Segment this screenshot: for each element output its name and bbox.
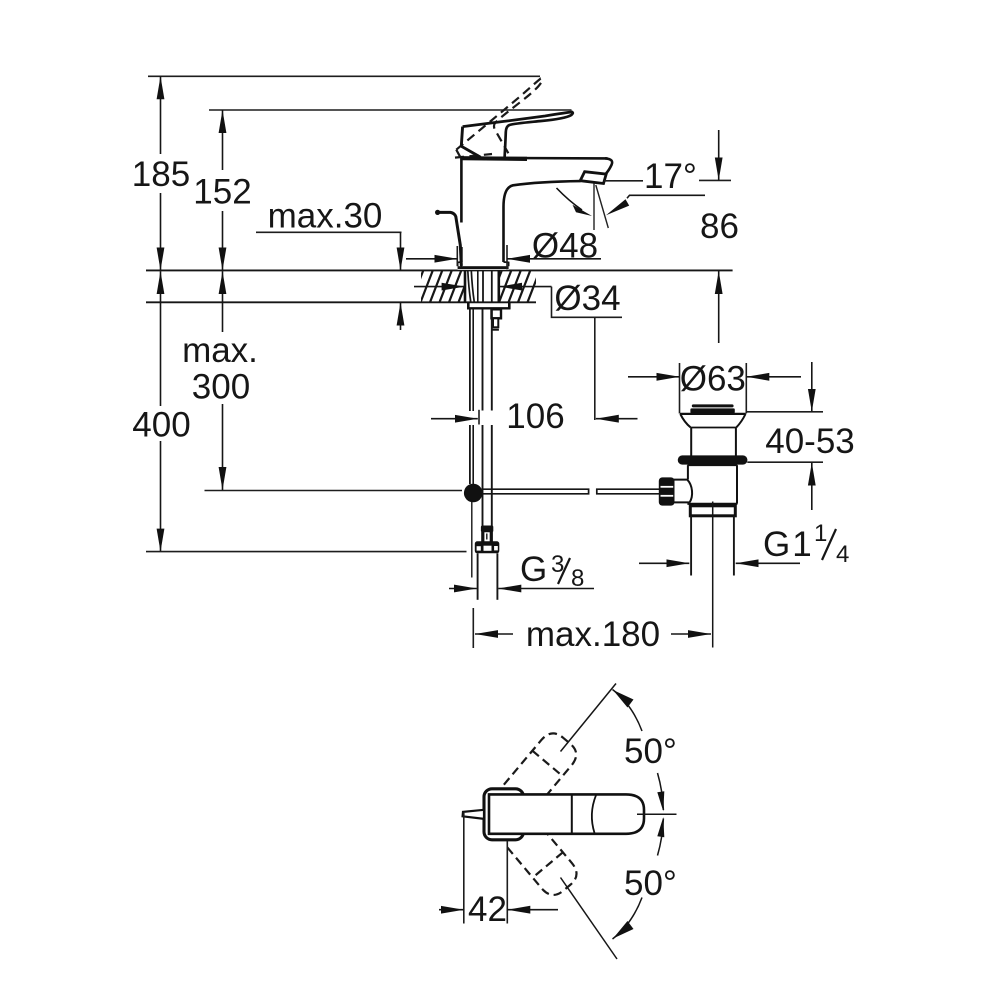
thin rod line below ball joint: [471, 502, 473, 578]
svg-text:152: 152: [193, 173, 251, 212]
dimension 400 vertical line with arrows: [160, 271, 162, 406]
svg-text:Ø34: Ø34: [554, 279, 620, 318]
aerator tip: [580, 172, 606, 184]
svg-text:17°: 17°: [644, 157, 697, 196]
dimension 185 vertical line with arrows: [160, 76, 162, 154]
spout underside curve: [504, 181, 581, 262]
plan view: lever tip divider curve: [592, 795, 596, 833]
svg-text:185: 185: [132, 155, 190, 194]
dimension G 1 1/4 arrows: [639, 562, 689, 564]
curved pop-up rod tube in shank: [468, 270, 471, 302]
ball-rod socket on drain body: [674, 480, 693, 503]
plan view: pop-up rod tip wedge: [463, 810, 484, 819]
svg-text:G1: G1: [763, 525, 814, 564]
rod coupler clamp upper block: [481, 526, 493, 533]
threaded ring G 1 1/4: [690, 506, 735, 516]
supply lines in shank: [477, 270, 479, 302]
extension line washer bottom (40-53 lower): [747, 461, 823, 463]
dimension 40-53 arrows: [811, 362, 813, 412]
reference line top of lever swing (185 level): [148, 75, 540, 77]
leader with arrow pointing to slanted stream line: [627, 195, 705, 198]
drain neck sides: [690, 428, 692, 456]
dimension Ø63 arrows: [628, 376, 680, 378]
lower angle arc: [613, 898, 643, 940]
svg-text:86: 86: [700, 207, 739, 246]
drain flange flare sides: [680, 414, 745, 427]
drain centerline: [712, 502, 714, 648]
dimension 106 extension line: [478, 410, 480, 425]
drain flare bottom line: [690, 427, 736, 429]
upper arc arrowheads: [613, 690, 634, 708]
threaded shank walls in deck hole: [464, 270, 467, 302]
ball joint of pop-up lever: [464, 484, 483, 503]
dimension G 3/8 arrows: [449, 588, 477, 590]
horizontal pop-up lever rod (right piece): [597, 489, 660, 494]
knurled adjuster knob: [659, 477, 675, 505]
pop-up rod tube below 106 line: [469, 425, 471, 484]
svg-text:1: 1: [814, 520, 827, 547]
svg-text:G: G: [520, 550, 547, 589]
cartridge steps below nut: [492, 309, 502, 318]
dimension Ø34 arrows: [414, 286, 465, 288]
deck / countertop top line: [146, 269, 733, 271]
dashed handle in raised position (rotated): [447, 78, 566, 176]
faucet body outline: [461, 158, 607, 223]
svg-text:max.180: max.180: [526, 615, 660, 654]
extension line washer top (40-53 upper): [747, 411, 824, 413]
svg-text:300: 300: [192, 368, 250, 407]
dimension 86 vertical line with arrows: [718, 130, 720, 180]
curved rotation arrow toward vertical line: [557, 188, 583, 210]
dimension Ø48 arrows: [406, 258, 457, 260]
dimension 106 arrows: [431, 418, 478, 420]
plan view: lever body: [489, 794, 644, 833]
svg-text:8: 8: [571, 565, 584, 592]
upper angle arc: [613, 690, 643, 732]
deck hatching left block: [411, 270, 471, 302]
handle rear block outline: [461, 127, 480, 158]
svg-text:106: 106: [506, 397, 564, 436]
reference line bottom of 400: [146, 551, 467, 553]
plan view: lower 50-degree radius line: [561, 878, 618, 960]
leader corner for Ø34 label: [552, 287, 623, 318]
plan view: dashed lever rotated up 50 degrees: [504, 728, 582, 810]
svg-text:50°: 50°: [624, 732, 677, 771]
plan view: handle rear block: [484, 789, 524, 840]
drain body bottom line: [687, 503, 737, 505]
dimension max.180 extension line (left): [472, 608, 474, 648]
dimension max.30 arrows (deck thickness): [400, 232, 402, 270]
faucet body silhouette (white fill): [458, 158, 613, 270]
base flange: [458, 266, 509, 269]
vertical water reference line below aerator: [593, 184, 595, 231]
plan view: upper 50-degree radius line: [561, 684, 617, 752]
svg-text:Ø63: Ø63: [680, 360, 746, 399]
dimension max.300 vertical line with arrows: [222, 271, 224, 332]
pop-up rod knob on faucet left: [438, 212, 462, 265]
drain Ø63 extension lines: [679, 363, 681, 414]
dimension 42 extension lines: [463, 813, 465, 924]
svg-text:max.30: max.30: [268, 197, 383, 236]
leader line from aerator to 17-degree label: [604, 180, 643, 182]
supply pipe below coupler (G 3/8): [477, 553, 479, 600]
drain flange top line: [680, 413, 746, 415]
slanted 17-degree stream line: [596, 185, 609, 228]
svg-text:Ø48: Ø48: [532, 227, 598, 266]
lower arc arrowheads: [613, 921, 634, 939]
drain plug cap: [692, 404, 734, 407]
rod coupler clamp lower bar: [475, 541, 500, 553]
svg-text:4: 4: [836, 541, 849, 568]
deck hatching right block: [490, 270, 540, 302]
solid lever handle outline: [463, 112, 573, 158]
drain body below washer: [687, 464, 737, 466]
extension line from Ø34 label down to 106 dimension: [594, 318, 596, 420]
svg-text:400: 400: [132, 406, 190, 445]
svg-text:42: 42: [468, 890, 507, 929]
handle base thick line: [461, 156, 527, 161]
reference line at pop-up rod (bottom of max.300): [205, 490, 463, 492]
rubber washer (black): [678, 455, 748, 464]
svg-text:40-53: 40-53: [765, 422, 855, 461]
plan view: horizontal centerline: [637, 813, 677, 815]
svg-text:50°: 50°: [624, 864, 677, 903]
leader line right of 17-degree label: [699, 179, 731, 181]
dashed handle bottom edge dashes: [455, 154, 492, 158]
dimension 42 arrows: [439, 909, 464, 911]
plan view: lever divider line: [571, 794, 573, 833]
dimension max.180 arrows: [475, 633, 513, 635]
reference line top of handle (152 level): [209, 109, 572, 111]
spout front edge curve: [605, 158, 612, 173]
horizontal pop-up lever rod (left piece): [483, 489, 589, 494]
svg-text:max.: max.: [182, 331, 258, 370]
solid handle silhouette (white fill): [461, 112, 573, 158]
rod coupler mid bars: [481, 532, 484, 542]
deck / countertop bottom line: [146, 301, 536, 303]
drain tailpipe: [690, 516, 692, 576]
dimension Ø48 extension lines: [456, 246, 458, 266]
dimension 152 vertical line with arrows: [222, 110, 224, 170]
plan view: dashed lever rotated down 50 degrees: [504, 818, 582, 900]
pop-up rod tube below deck (upper part): [469, 309, 471, 411]
mounting nut below deck: [468, 303, 509, 309]
